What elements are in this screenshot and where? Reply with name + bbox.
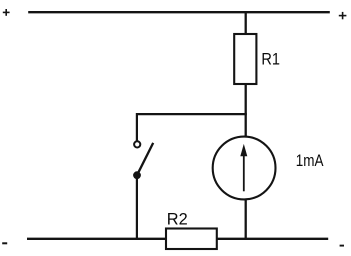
wire switch to bottom: [136, 178, 138, 240]
wire bottom-left: [27, 238, 167, 240]
wire R1 to current source: [245, 84, 247, 137]
svg-text:1mA: 1mA: [296, 152, 324, 170]
wire top to R1: [245, 11, 247, 34]
switch S1: [133, 141, 153, 179]
node + terminal top-right: [339, 12, 347, 19]
svg-text:R1: R1: [261, 51, 280, 69]
wire switch branch horizontal: [137, 113, 247, 115]
wire current source to bottom: [245, 199, 247, 240]
node + terminal top-left: [3, 9, 10, 16]
resistor R1: [234, 34, 256, 84]
node - terminal bottom-left: [2, 242, 7, 244]
node - terminal bottom-right: [340, 245, 344, 247]
wire to switch: [136, 113, 138, 141]
current source I1 1mA: [213, 137, 276, 200]
wire bottom-right: [217, 238, 329, 240]
wire top: [28, 11, 330, 13]
svg-text:R2: R2: [167, 211, 188, 229]
resistor R2: [166, 229, 217, 250]
